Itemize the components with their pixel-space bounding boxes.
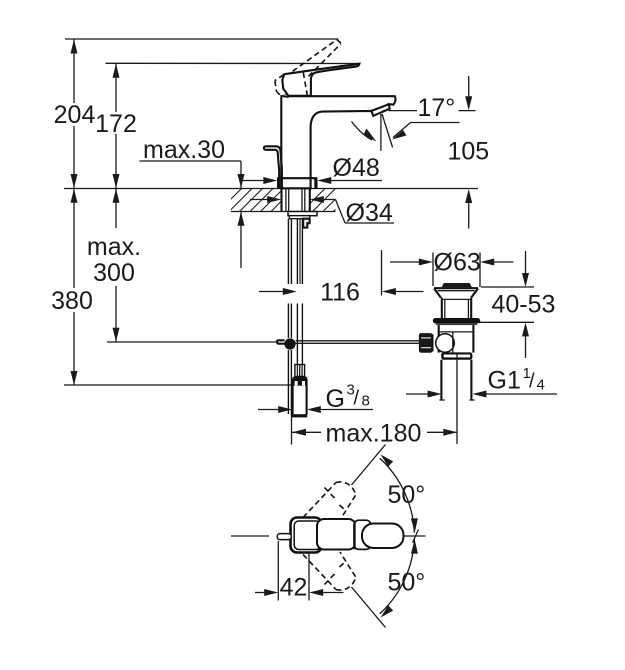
svg-text:116: 116	[320, 279, 360, 307]
svg-text:max.: max.	[87, 233, 141, 261]
svg-text:/: /	[529, 371, 535, 393]
svg-text:/: /	[354, 388, 360, 410]
svg-text:G1: G1	[488, 367, 521, 395]
svg-text:40-53: 40-53	[492, 291, 556, 319]
svg-text:50°: 50°	[388, 569, 426, 597]
svg-text:Ø63: Ø63	[434, 249, 481, 277]
svg-text:172: 172	[95, 110, 137, 138]
svg-text:204: 204	[54, 101, 96, 129]
svg-text:Ø34: Ø34	[346, 199, 393, 227]
svg-text:Ø48: Ø48	[333, 154, 380, 182]
svg-text:G: G	[326, 385, 345, 413]
svg-text:300: 300	[93, 259, 135, 287]
svg-text:8: 8	[362, 393, 370, 410]
svg-text:50°: 50°	[388, 481, 426, 509]
svg-text:380: 380	[51, 287, 93, 315]
svg-text:4: 4	[537, 377, 545, 394]
svg-text:17°: 17°	[418, 94, 456, 122]
svg-text:105: 105	[448, 138, 490, 166]
svg-text:max.30: max.30	[143, 136, 225, 164]
svg-text:42: 42	[280, 574, 308, 602]
svg-text:max.180: max.180	[326, 420, 422, 448]
